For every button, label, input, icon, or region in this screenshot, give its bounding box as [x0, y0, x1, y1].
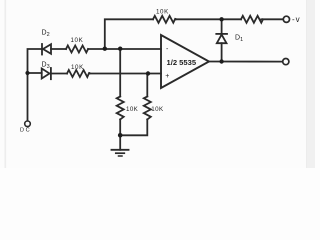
svg-text:+: +	[165, 73, 169, 80]
svg-text:10K: 10K	[156, 9, 169, 16]
svg-text:1/2 5535: 1/2 5535	[167, 58, 197, 67]
svg-text:10K: 10K	[126, 106, 139, 113]
svg-text:10K: 10K	[71, 37, 84, 44]
svg-text:D C: D C	[20, 128, 30, 134]
svg-text:10K: 10K	[151, 106, 164, 113]
svg-text:-v: -v	[292, 15, 301, 24]
svg-text:10K: 10K	[71, 64, 84, 71]
